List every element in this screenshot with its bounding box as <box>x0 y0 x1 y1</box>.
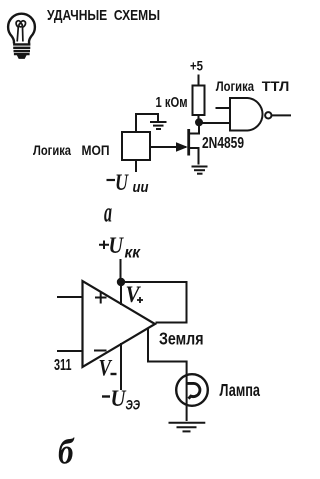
svg-text:ии: ии <box>133 179 149 196</box>
svg-text:кк: кк <box>125 244 141 261</box>
svg-text:V: V <box>99 356 113 381</box>
svg-text:Логика: Логика <box>216 78 255 94</box>
svg-text:+5: +5 <box>190 58 203 74</box>
svg-text:311: 311 <box>54 357 72 374</box>
svg-text:U: U <box>115 170 129 195</box>
svg-text:Лампа: Лампа <box>220 380 261 400</box>
svg-text:Логика: Логика <box>33 142 71 158</box>
svg-text:а: а <box>104 197 112 228</box>
svg-text:МОП: МОП <box>82 142 110 158</box>
svg-text:ТТЛ: ТТЛ <box>262 78 290 94</box>
svg-text:Земля: Земля <box>159 329 204 349</box>
svg-text:УДАЧНЫЕ СХЕМЫ: УДАЧНЫЕ СХЕМЫ <box>47 7 160 24</box>
svg-text:1 кОм: 1 кОм <box>156 95 188 111</box>
svg-text:U: U <box>111 386 127 411</box>
svg-text:б: б <box>58 432 75 472</box>
svg-text:2N4859: 2N4859 <box>202 135 244 152</box>
svg-text:ЭЭ: ЭЭ <box>126 396 141 412</box>
svg-text:V: V <box>126 282 142 307</box>
svg-text:U: U <box>109 233 125 258</box>
